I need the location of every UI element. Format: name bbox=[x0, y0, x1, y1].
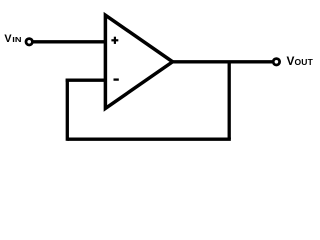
wire feedback vertical right (junction at output) bbox=[228, 62, 231, 139]
svg-text:OUT: OUT bbox=[295, 57, 314, 67]
wire feedback to op-amp - input bbox=[66, 79, 107, 82]
terminal VIN bbox=[26, 39, 32, 45]
op-amp inverting input - symbol bbox=[114, 78, 119, 80]
terminal VOUT bbox=[273, 59, 279, 65]
wire feedback vertical left bbox=[66, 79, 69, 141]
svg-text:V: V bbox=[287, 54, 295, 68]
wire op-amp output to VOUT terminal bbox=[173, 60, 272, 63]
wire feedback bottom bbox=[67, 138, 231, 141]
node VIN label bbox=[4, 33, 21, 45]
svg-text:IN: IN bbox=[12, 37, 21, 44]
svg-text:V: V bbox=[4, 33, 12, 45]
node VOUT label bbox=[287, 54, 314, 68]
op-amp U1 bbox=[105, 15, 172, 108]
wire VIN to op-amp + input bbox=[34, 40, 108, 43]
op-amp non-inverting input + symbol bbox=[111, 37, 118, 44]
